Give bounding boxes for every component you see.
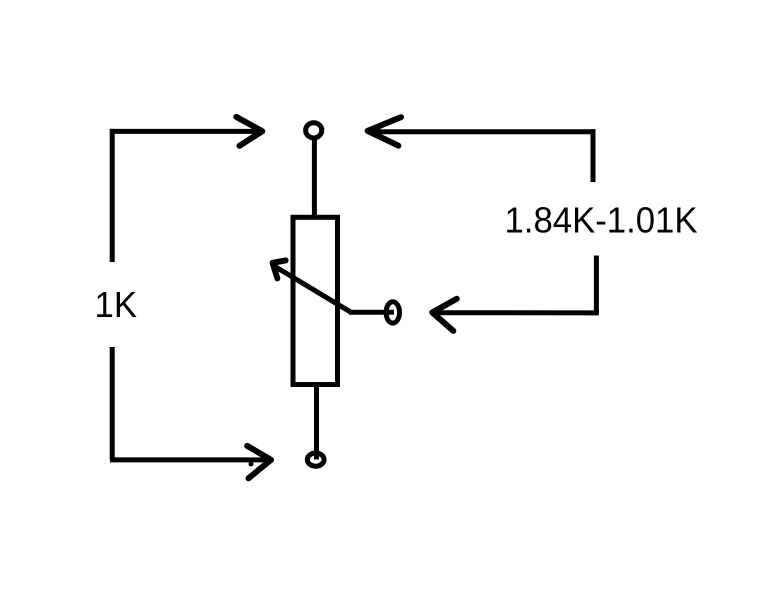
wire: right bracket bottom horizontal arrow shaft <box>436 310 599 315</box>
wire: wiper horizontal lead <box>349 310 394 315</box>
wire: right bracket vertical lower segment <box>594 256 599 314</box>
arrowhead: wiper pointing up-left <box>273 260 286 278</box>
wire: left bracket top horizontal arrow shaft <box>110 129 258 134</box>
wiper: diagonal arrow shaft <box>275 267 351 313</box>
svg-text:1.84K-1.01K: 1.84K-1.01K <box>505 200 698 241</box>
wire: left bracket bottom horizontal arrow shaft <box>110 457 266 462</box>
wire: bottom lead <box>314 385 319 460</box>
arrowhead: right bottom arrow pointing left <box>432 299 457 331</box>
wire: left bracket vertical upper segment <box>110 129 115 262</box>
wire: left bracket vertical lower segment <box>110 347 115 460</box>
terminal: wiper circle <box>386 302 399 323</box>
stray dot near bottom arrow <box>249 462 254 467</box>
terminal: bottom circle <box>307 453 324 466</box>
arrowhead: left top arrow pointing right <box>236 117 262 146</box>
arrowhead: right top arrow pointing left <box>368 117 401 146</box>
potentiometer R1 body <box>293 217 338 384</box>
terminal: top circle <box>306 123 322 138</box>
wire: top lead <box>312 139 317 217</box>
wire: right bracket top horizontal arrow shaft <box>372 129 596 134</box>
arrowhead: left bottom arrow pointing right <box>247 446 271 478</box>
wire: right bracket vertical upper segment <box>591 129 596 182</box>
svg-text:1K: 1K <box>95 284 138 325</box>
